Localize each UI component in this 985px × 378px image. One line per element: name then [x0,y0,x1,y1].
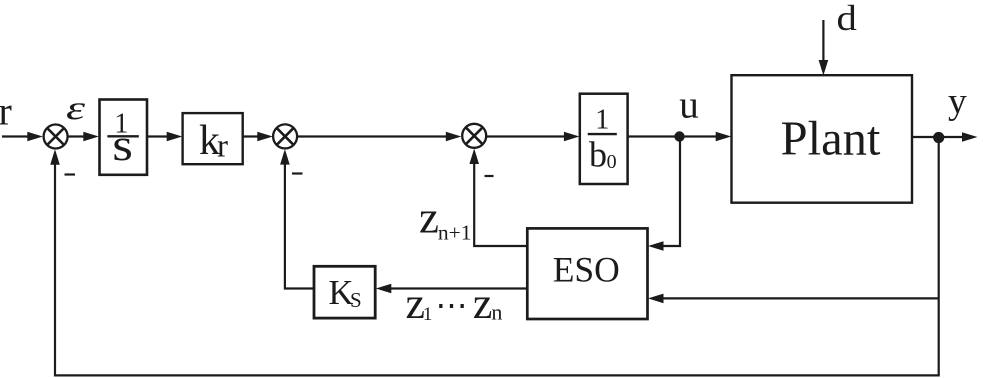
svg-text:n+1: n+1 [438,221,472,245]
svg-text:ESO: ESO [553,249,620,289]
svg-text:d: d [837,0,857,38]
svg-text:y: y [948,81,967,122]
svg-text:z: z [473,279,493,328]
svg-text:Plant: Plant [781,113,881,166]
svg-text:⋯: ⋯ [436,287,468,323]
svg-text:r: r [217,129,228,165]
svg-text:0: 0 [607,151,617,173]
svg-text:r: r [0,89,12,134]
svg-text:1: 1 [423,304,433,325]
svg-text:z: z [419,193,439,243]
svg-text:n: n [491,299,502,324]
svg-text:S: S [350,288,362,312]
svg-text:b: b [589,135,607,175]
svg-text:ε: ε [66,90,86,127]
svg-text:s: s [112,120,133,170]
svg-text:u: u [679,84,699,127]
svg-text:1: 1 [595,105,609,136]
